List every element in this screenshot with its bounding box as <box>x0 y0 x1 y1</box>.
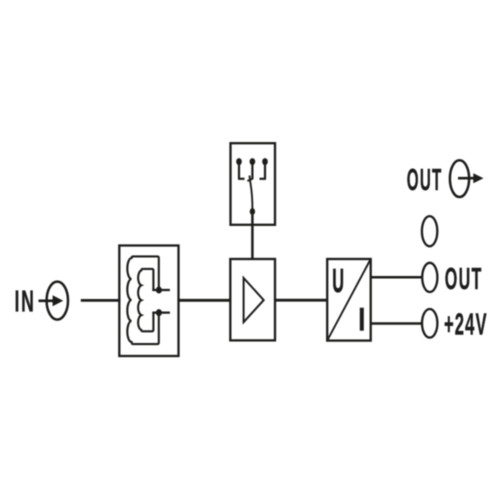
secondary tap wire lower <box>152 311 170 313</box>
junction dot upper <box>156 287 162 294</box>
transformer isolation block T1 <box>119 246 178 357</box>
input terminal symbol (ellipse with arrow) <box>39 282 69 320</box>
amplifier box <box>230 259 275 340</box>
switch contact 2 (dot, stem) <box>250 158 256 179</box>
switch lever <box>250 176 253 209</box>
switch common dot <box>250 208 255 215</box>
OUT terminal circle <box>422 263 437 292</box>
wire IN to transformer <box>81 299 121 302</box>
amplifier triangle <box>244 278 264 322</box>
spare terminal circle <box>422 216 437 246</box>
wire U/I to OUT terminal <box>371 276 423 279</box>
secondary tap wire upper <box>152 289 170 291</box>
wire switch to amplifier <box>251 214 254 260</box>
label I <box>360 308 364 331</box>
svg-text:IN: IN <box>15 285 36 319</box>
U/I diagonal <box>327 259 371 341</box>
svg-text:OUT: OUT <box>407 163 443 197</box>
svg-text:OUT: OUT <box>445 263 483 297</box>
wire amplifier to U/I <box>275 299 327 302</box>
wire U/I to +24V terminal <box>371 322 423 325</box>
output terminal symbol (ellipse with arrow) <box>450 160 484 197</box>
wire transformer to amplifier <box>179 299 231 302</box>
junction dot lower <box>156 309 162 316</box>
+24V terminal circle <box>422 309 437 338</box>
svg-text:U: U <box>332 261 344 299</box>
DIP switch box S1 <box>231 143 276 225</box>
transformer secondary winding <box>138 269 153 331</box>
switch contact 1 (dot, stem, foot) <box>236 158 244 179</box>
U/I converter box <box>327 259 371 341</box>
transformer primary winding <box>127 256 158 344</box>
switch middle contact foot <box>247 179 252 181</box>
switch contact 3 (dot, stem, foot) <box>260 158 268 179</box>
svg-text:+24V: +24V <box>444 308 488 342</box>
